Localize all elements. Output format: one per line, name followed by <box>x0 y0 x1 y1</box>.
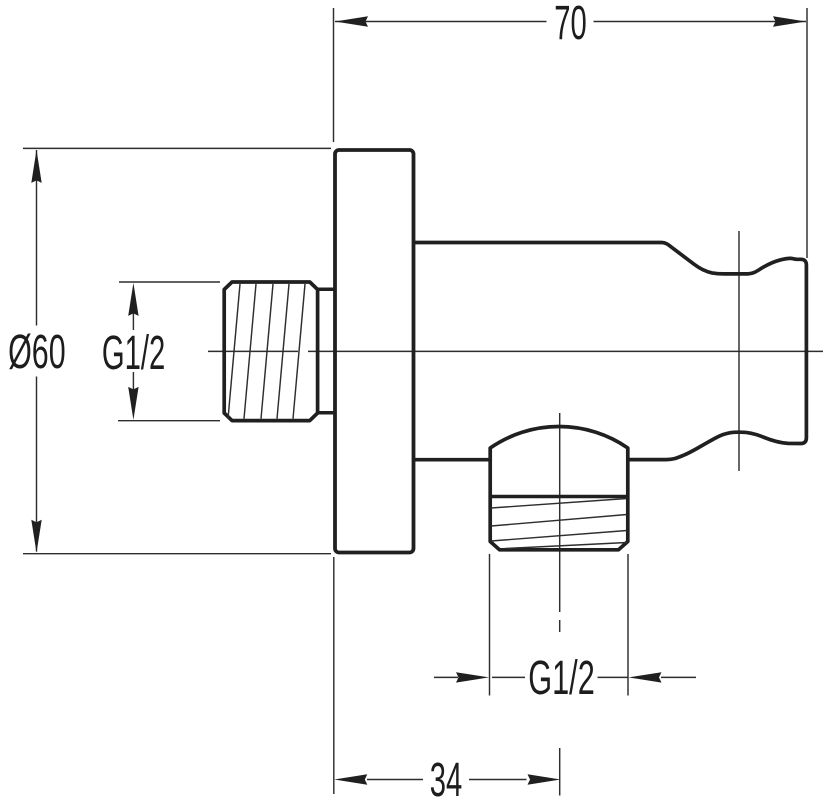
dimension 34: dimension line <box>367 779 527 781</box>
svg-text:Ø60: Ø60 <box>8 325 66 379</box>
dimension G1/2 outlet: inner dimension line <box>492 676 628 678</box>
dimension 34: left extension line <box>333 557 335 794</box>
collar between nipple and flange <box>318 289 335 412</box>
dimension 34: right arrowhead <box>528 774 561 784</box>
inlet thread hatch lines <box>228 284 305 419</box>
main horizontal centerline <box>208 350 823 352</box>
dimension Ø60: up arrowhead <box>31 150 41 183</box>
dimension 34: left arrowhead <box>334 774 367 784</box>
dimension 70: dimension line <box>335 21 806 23</box>
dimension Ø60: down arrowhead <box>31 520 41 553</box>
dimension G1/2 inlet: top extension line <box>119 281 220 283</box>
dimension Ø60: top extension line <box>23 147 331 149</box>
dimension G1/2 outlet: right leader line <box>661 676 696 678</box>
svg-text:G1/2: G1/2 <box>102 327 165 380</box>
outlet thread start line <box>490 495 628 499</box>
dimension G1/2 inlet: dimension line <box>132 313 134 390</box>
dimension G1/2 outlet: left extension line <box>489 554 491 696</box>
holder vertical centerline <box>738 231 740 471</box>
inlet thread nipple G1/2 <box>224 282 317 421</box>
dimension G1/2 inlet: bottom extension line <box>118 420 220 422</box>
dimension 70: left arrowhead <box>335 16 368 26</box>
dimension Ø60: bottom extension line <box>23 553 331 555</box>
outlet thread hatch <box>491 499 627 549</box>
svg-text:70: 70 <box>554 0 587 50</box>
dimension G1/2 outlet: right extension line <box>627 554 629 696</box>
svg-text:34: 34 <box>430 754 463 801</box>
body arm, holder waist and outlet dome outline <box>413 243 806 460</box>
dimension G1/2 inlet: up arrowhead <box>128 283 138 316</box>
wall flange plate <box>335 150 414 553</box>
dimension 70: right arrowhead <box>773 16 806 26</box>
dimension G1/2 inlet: down arrowhead <box>128 387 138 420</box>
dimension 70: right extension line <box>806 8 808 258</box>
dimension G1/2 outlet: left leader line <box>434 676 458 678</box>
dimension G1/2 outlet: right arrowhead <box>629 672 662 682</box>
dimension Ø60: dimension line <box>36 150 38 552</box>
svg-text:G1/2: G1/2 <box>528 651 595 705</box>
dimension 70: left extension line <box>333 8 335 142</box>
outlet thread body <box>490 459 628 550</box>
outlet vertical centerline <box>559 413 561 796</box>
dimension G1/2 outlet: left arrowhead <box>456 672 489 682</box>
